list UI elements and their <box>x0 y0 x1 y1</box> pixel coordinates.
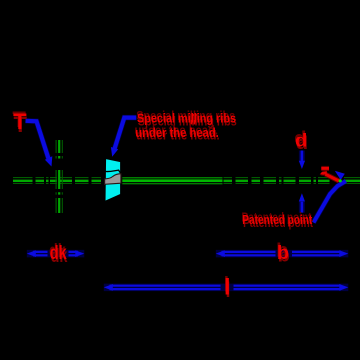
screw head <box>104 158 121 202</box>
l dimension <box>104 284 348 291</box>
svg-text:b: b <box>277 243 289 264</box>
shank solid band <box>122 178 223 184</box>
blue callout: ribs arrow <box>111 118 136 157</box>
red blob artifact over "lli" of milling <box>190 114 197 125</box>
dk dimension <box>27 250 85 257</box>
vertical cross centerline at dk center <box>56 140 62 213</box>
blue callout: T arrow <box>26 121 53 167</box>
svg-text:l: l <box>225 276 230 299</box>
ghost copies <box>14 112 314 302</box>
main red <box>13 109 313 299</box>
b dimension <box>216 250 348 257</box>
svg-text:under the head.: under the head. <box>135 125 219 140</box>
blue callout: patented point arrow <box>314 171 346 223</box>
svg-text:T: T <box>13 109 27 134</box>
patented point (red) <box>321 168 339 181</box>
svg-text:d: d <box>295 129 307 150</box>
svg-text:Special milling ribs: Special milling ribs <box>137 111 236 126</box>
green dot at point tip <box>339 179 342 182</box>
d dimension arrows <box>299 151 305 213</box>
svg-text:dk: dk <box>50 243 67 264</box>
svg-text:Patented point: Patented point <box>242 212 313 227</box>
